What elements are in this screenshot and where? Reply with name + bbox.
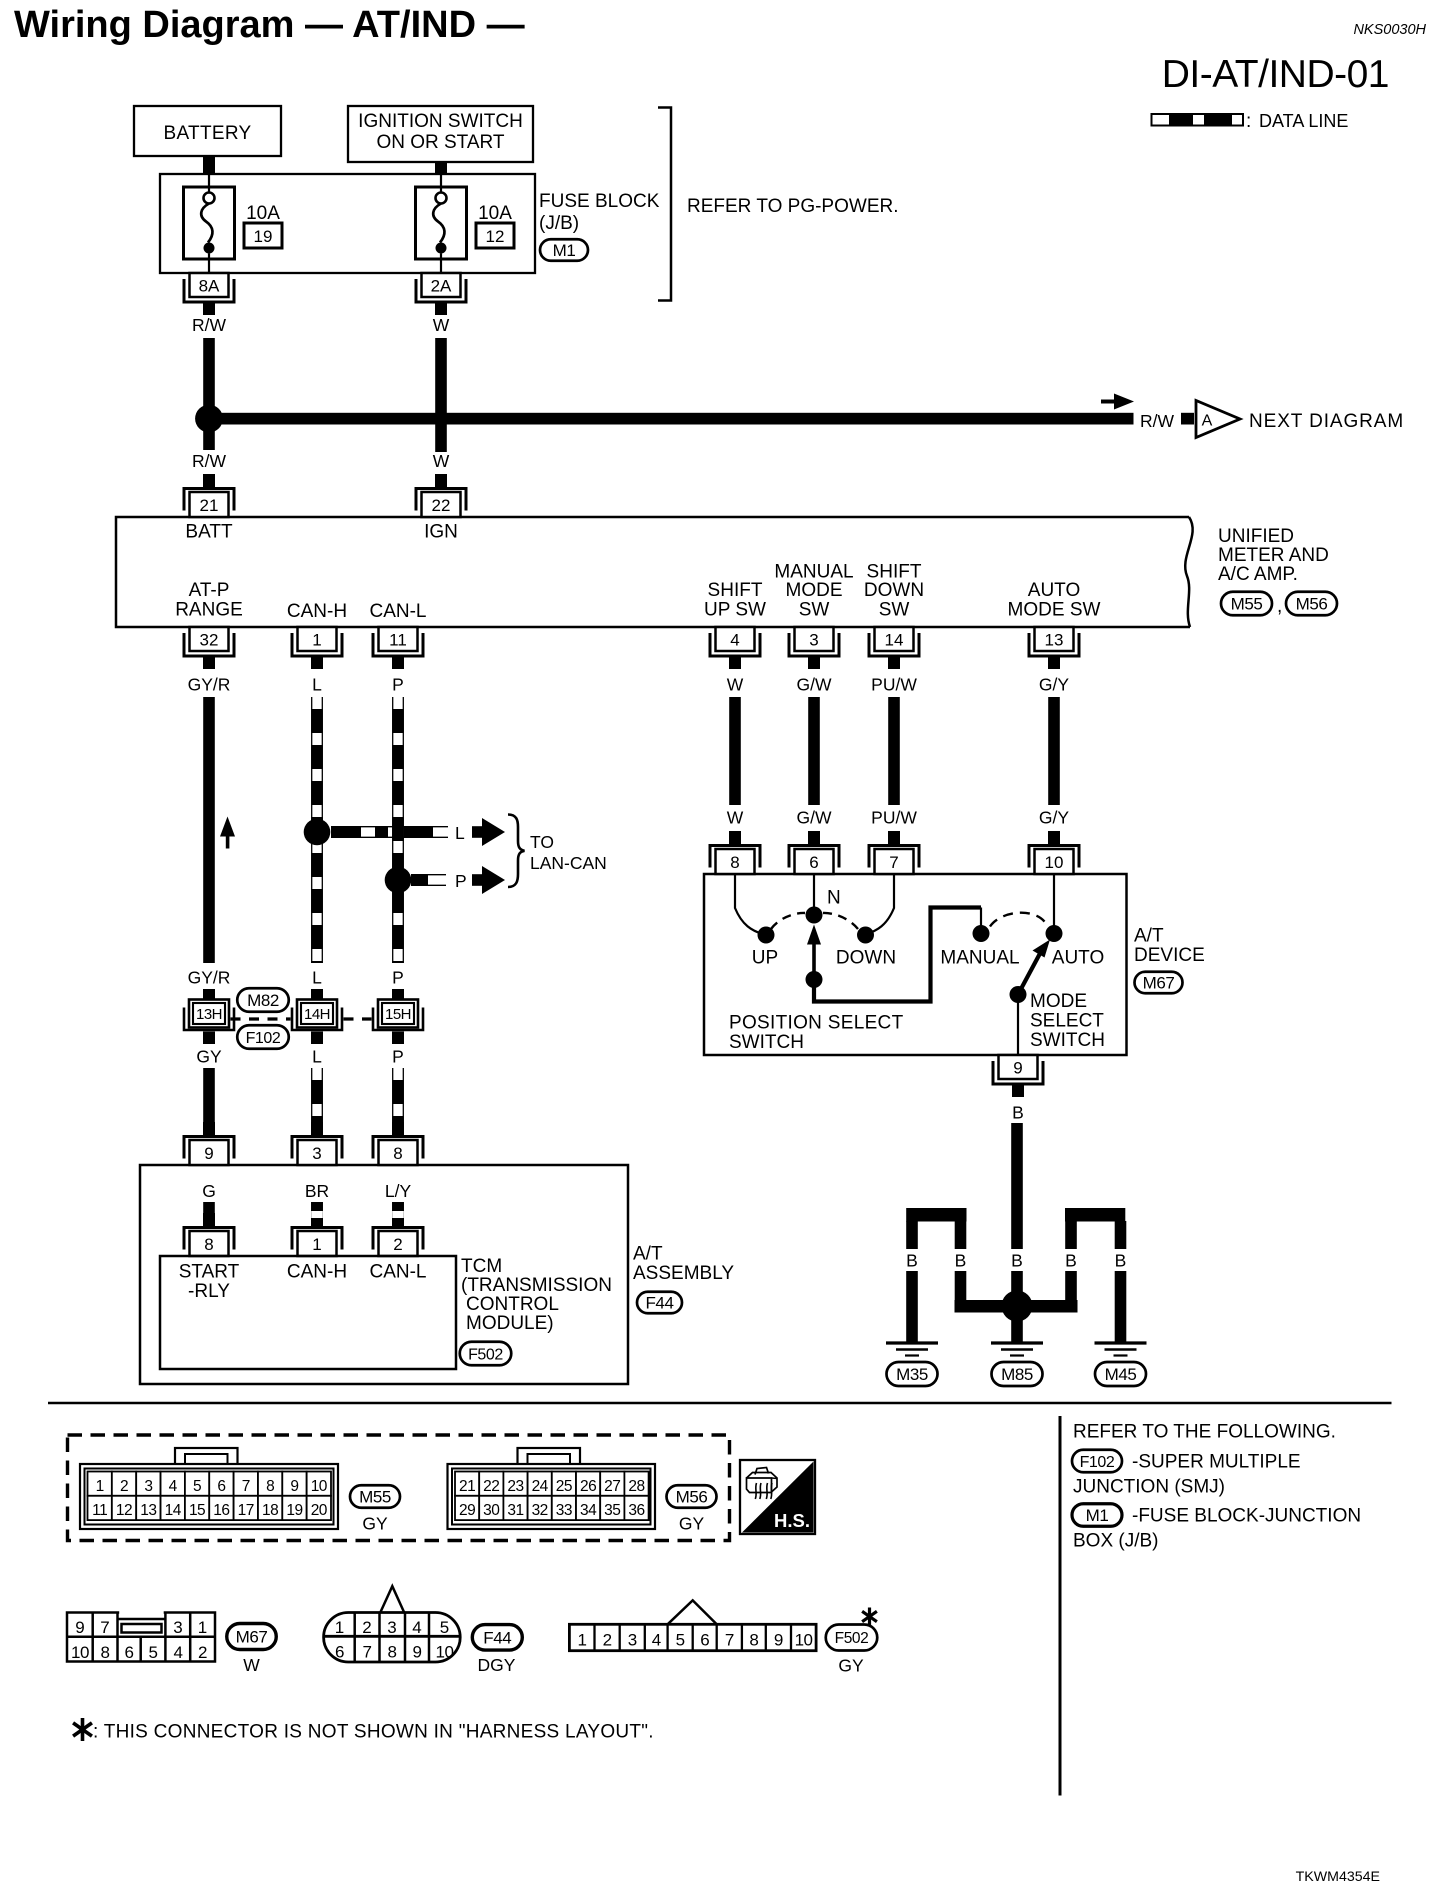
svg-text:M45: M45 [1105, 1365, 1137, 1384]
svg-text:B: B [1065, 1251, 1077, 1271]
svg-text:B: B [955, 1251, 967, 1271]
svg-text:MODE SW: MODE SW [1008, 600, 1101, 621]
svg-text:UP SW: UP SW [704, 600, 766, 621]
svg-text:-SUPER MULTIPLE: -SUPER MULTIPLE [1132, 1452, 1301, 1473]
svg-text:B: B [1115, 1251, 1127, 1271]
svg-text:30: 30 [483, 1502, 500, 1519]
svg-text:DGY: DGY [478, 1655, 516, 1675]
svg-text:9: 9 [774, 1630, 783, 1649]
svg-text:3: 3 [628, 1630, 637, 1649]
svg-text:10: 10 [436, 1643, 454, 1662]
svg-text:L/Y: L/Y [385, 1181, 412, 1201]
svg-text:8: 8 [388, 1643, 397, 1662]
svg-text:G/W: G/W [797, 808, 832, 828]
svg-text:P: P [392, 968, 404, 988]
svg-text:4: 4 [412, 1618, 421, 1637]
svg-text:ASSEMBLY: ASSEMBLY [633, 1263, 734, 1284]
svg-text:H.S.: H.S. [774, 1510, 810, 1531]
svg-text:RANGE: RANGE [175, 600, 243, 621]
svg-text:M1: M1 [1086, 1506, 1109, 1525]
svg-text:31: 31 [507, 1502, 523, 1519]
svg-text:Wiring Diagram — AT/IND —: Wiring Diagram — AT/IND — [14, 4, 525, 46]
svg-text:2: 2 [393, 1235, 402, 1254]
svg-text:6: 6 [125, 1643, 134, 1662]
svg-text:F502: F502 [468, 1346, 503, 1363]
svg-text:IGN: IGN [424, 522, 458, 543]
svg-text:F44: F44 [483, 1628, 511, 1647]
svg-text:M55: M55 [359, 1488, 391, 1507]
svg-text:JUNCTION (SMJ): JUNCTION (SMJ) [1073, 1477, 1225, 1498]
svg-text:3: 3 [387, 1618, 396, 1637]
svg-text:11: 11 [389, 631, 407, 650]
svg-text:TCM: TCM [461, 1256, 502, 1277]
svg-text:G/Y: G/Y [1039, 808, 1069, 828]
svg-text:29: 29 [459, 1502, 475, 1519]
svg-text:1: 1 [312, 631, 321, 650]
svg-text:BATT: BATT [185, 522, 233, 543]
svg-text:7: 7 [100, 1618, 109, 1637]
svg-text:M56: M56 [676, 1488, 708, 1507]
svg-text:M55: M55 [1231, 595, 1263, 614]
svg-text:FUSE BLOCK: FUSE BLOCK [539, 191, 660, 212]
svg-text:F102: F102 [246, 1030, 281, 1047]
svg-text:GY/R: GY/R [188, 968, 231, 988]
svg-text:(J/B): (J/B) [539, 213, 579, 234]
svg-text:POSITION SELECT: POSITION SELECT [729, 1013, 904, 1034]
svg-text:DATA LINE: DATA LINE [1259, 111, 1348, 131]
svg-text:SELECT: SELECT [1030, 1011, 1104, 1032]
svg-text:19: 19 [254, 227, 273, 246]
svg-text:2: 2 [198, 1643, 207, 1662]
svg-text:35: 35 [604, 1502, 620, 1519]
svg-text:9: 9 [413, 1643, 422, 1662]
svg-text:CAN-H: CAN-H [287, 1262, 347, 1283]
svg-text:B: B [906, 1251, 918, 1271]
svg-text:19: 19 [286, 1502, 302, 1519]
svg-text:R/W: R/W [192, 315, 227, 335]
svg-text:DOWN: DOWN [864, 580, 924, 601]
svg-text:8: 8 [266, 1478, 274, 1495]
svg-text:A/T: A/T [1134, 926, 1164, 947]
svg-text:PU/W: PU/W [871, 808, 917, 828]
svg-text:26: 26 [580, 1478, 596, 1495]
svg-text:GY/R: GY/R [188, 675, 231, 695]
svg-text:M67: M67 [1143, 974, 1175, 993]
svg-text:IGNITION SWITCH: IGNITION SWITCH [358, 111, 523, 132]
svg-text:3: 3 [312, 1144, 321, 1163]
svg-text:AUTO: AUTO [1028, 580, 1080, 601]
svg-text:10A: 10A [478, 203, 512, 224]
svg-text:7: 7 [889, 853, 898, 872]
svg-text:1: 1 [96, 1478, 104, 1495]
svg-text:27: 27 [604, 1478, 620, 1495]
svg-text:R/W: R/W [1140, 411, 1175, 431]
svg-text:START: START [179, 1262, 240, 1283]
svg-text:L: L [312, 968, 322, 988]
svg-text:3: 3 [809, 631, 818, 650]
svg-text:LAN-CAN: LAN-CAN [530, 853, 607, 873]
svg-text:7: 7 [725, 1630, 734, 1649]
svg-text:AUTO: AUTO [1052, 948, 1104, 969]
svg-text:REFER TO PG-POWER.: REFER TO PG-POWER. [687, 196, 899, 217]
svg-text:2: 2 [603, 1630, 612, 1649]
svg-text:7: 7 [363, 1643, 372, 1662]
svg-text:18: 18 [262, 1502, 278, 1519]
svg-text:B: B [1012, 1103, 1024, 1123]
svg-text:,: , [1277, 596, 1282, 617]
svg-text:17: 17 [238, 1502, 254, 1519]
svg-text:14: 14 [885, 631, 904, 650]
svg-text:SHIFT: SHIFT [708, 580, 763, 601]
svg-text:36: 36 [628, 1502, 644, 1519]
svg-text:6: 6 [217, 1478, 225, 1495]
svg-text:9: 9 [75, 1618, 84, 1637]
svg-text:8: 8 [730, 853, 739, 872]
svg-text:15: 15 [189, 1502, 205, 1519]
svg-text:GY: GY [679, 1514, 705, 1534]
svg-text:P: P [392, 675, 404, 695]
svg-text:2A: 2A [431, 277, 452, 296]
svg-text:4: 4 [730, 631, 739, 650]
svg-text:GY: GY [362, 1514, 388, 1534]
svg-text:TKWM4354E: TKWM4354E [1296, 1869, 1380, 1885]
svg-text:8A: 8A [199, 277, 220, 296]
svg-text:10: 10 [311, 1478, 328, 1495]
svg-text:ON OR START: ON OR START [376, 132, 504, 153]
svg-text:-FUSE BLOCK-JUNCTION: -FUSE BLOCK-JUNCTION [1132, 1506, 1361, 1527]
svg-text:L: L [455, 823, 465, 843]
svg-text:11: 11 [92, 1502, 107, 1519]
svg-text:TO: TO [530, 832, 554, 852]
svg-text:REFER TO THE FOLLOWING.: REFER TO THE FOLLOWING. [1073, 1422, 1336, 1443]
svg-text:BATTERY: BATTERY [164, 123, 252, 144]
svg-text:B: B [1011, 1251, 1023, 1271]
svg-text:F44: F44 [645, 1294, 673, 1313]
svg-text:5: 5 [440, 1618, 449, 1637]
svg-text:14: 14 [165, 1502, 182, 1519]
svg-text:10: 10 [1045, 853, 1064, 872]
svg-text:PU/W: PU/W [871, 675, 917, 695]
svg-text:(TRANSMISSION: (TRANSMISSION [461, 1275, 612, 1296]
svg-text:4: 4 [169, 1478, 178, 1495]
svg-text:15H: 15H [385, 1006, 411, 1023]
svg-text:M1: M1 [553, 241, 576, 260]
svg-text:1: 1 [335, 1618, 344, 1637]
svg-text:GY: GY [838, 1656, 864, 1676]
svg-text:2: 2 [120, 1478, 128, 1495]
svg-text:32: 32 [532, 1502, 548, 1519]
svg-text:33: 33 [556, 1502, 572, 1519]
svg-text:A/T: A/T [633, 1244, 663, 1265]
svg-text:9: 9 [204, 1144, 213, 1163]
svg-text:4: 4 [652, 1630, 661, 1649]
svg-text:: THIS CONNECTOR IS NOT SHOWN: : THIS CONNECTOR IS NOT SHOWN IN "HARNES… [93, 1722, 654, 1743]
svg-text:1: 1 [577, 1630, 586, 1649]
svg-text:10A: 10A [246, 203, 280, 224]
svg-text:14H: 14H [304, 1006, 330, 1023]
svg-text:10: 10 [795, 1630, 813, 1649]
svg-text:24: 24 [532, 1478, 549, 1495]
svg-text:L: L [312, 1047, 322, 1067]
svg-text:5: 5 [676, 1630, 685, 1649]
svg-text:DEVICE: DEVICE [1134, 945, 1205, 966]
svg-text:F102: F102 [1080, 1454, 1115, 1471]
svg-text:DOWN: DOWN [836, 948, 896, 969]
svg-text:G: G [202, 1181, 216, 1201]
svg-text:MODE: MODE [786, 580, 843, 601]
svg-text:4: 4 [174, 1643, 183, 1662]
svg-text:GY: GY [196, 1047, 222, 1067]
svg-text:13H: 13H [196, 1006, 222, 1023]
svg-text:DI-AT/IND-01: DI-AT/IND-01 [1162, 53, 1389, 96]
svg-text:12: 12 [116, 1502, 132, 1519]
svg-text:W: W [727, 808, 744, 828]
svg-text:32: 32 [200, 631, 219, 650]
svg-text:METER AND: METER AND [1218, 545, 1329, 566]
svg-text:6: 6 [700, 1630, 709, 1649]
svg-text:BR: BR [305, 1181, 329, 1201]
svg-text:BOX (J/B): BOX (J/B) [1073, 1531, 1159, 1552]
svg-text:21: 21 [459, 1478, 475, 1495]
svg-text:13: 13 [140, 1502, 156, 1519]
svg-text:NEXT DIAGRAM: NEXT DIAGRAM [1249, 411, 1404, 432]
svg-text:SWITCH: SWITCH [1030, 1030, 1105, 1051]
svg-text:12: 12 [486, 227, 505, 246]
svg-text:W: W [243, 1655, 260, 1675]
svg-text:8: 8 [749, 1630, 758, 1649]
svg-text:SW: SW [879, 600, 910, 621]
svg-text:7: 7 [242, 1478, 250, 1495]
svg-text:28: 28 [628, 1478, 644, 1495]
svg-text:N: N [827, 888, 841, 909]
svg-text:M67: M67 [236, 1628, 268, 1647]
svg-text:M82: M82 [247, 991, 279, 1010]
svg-text:SW: SW [799, 600, 830, 621]
svg-text:9: 9 [290, 1478, 298, 1495]
svg-text:8: 8 [204, 1235, 213, 1254]
svg-text:R/W: R/W [192, 451, 227, 471]
svg-text:A/C AMP.: A/C AMP. [1218, 564, 1298, 585]
svg-text:6: 6 [335, 1643, 344, 1662]
svg-text:20: 20 [311, 1502, 328, 1519]
svg-text:G/W: G/W [797, 675, 832, 695]
svg-text:6: 6 [809, 853, 818, 872]
svg-text:L: L [312, 675, 322, 695]
svg-text:W: W [433, 315, 450, 335]
svg-text:UNIFIED: UNIFIED [1218, 526, 1294, 547]
svg-text:W: W [727, 675, 744, 695]
svg-text:1: 1 [198, 1618, 207, 1637]
svg-text:F502: F502 [835, 1630, 869, 1647]
svg-text:22: 22 [483, 1478, 499, 1495]
svg-text:UP: UP [752, 948, 778, 969]
svg-text:CAN-L: CAN-L [369, 1262, 426, 1283]
svg-text:P: P [455, 871, 467, 891]
svg-text:NKS0030H: NKS0030H [1353, 22, 1426, 38]
svg-text:MODE: MODE [1030, 991, 1087, 1012]
svg-text:1: 1 [312, 1235, 321, 1254]
svg-text:10: 10 [71, 1643, 89, 1662]
svg-text:CONTROL: CONTROL [466, 1294, 559, 1315]
svg-text:23: 23 [507, 1478, 523, 1495]
svg-text:-RLY: -RLY [188, 1281, 230, 1302]
svg-text:CAN-H: CAN-H [287, 601, 347, 622]
svg-text:8: 8 [393, 1144, 402, 1163]
svg-text:SWITCH: SWITCH [729, 1032, 804, 1053]
svg-text:3: 3 [144, 1478, 152, 1495]
svg-text:22: 22 [432, 496, 451, 515]
svg-text:W: W [433, 451, 450, 471]
svg-text:M56: M56 [1296, 595, 1328, 614]
svg-text:A: A [1202, 413, 1213, 430]
svg-text:G/Y: G/Y [1039, 675, 1069, 695]
svg-text:M85: M85 [1001, 1365, 1033, 1384]
svg-text:13: 13 [1045, 631, 1064, 650]
svg-text:2: 2 [362, 1618, 371, 1637]
svg-text::: : [1246, 111, 1251, 132]
svg-text:21: 21 [200, 496, 219, 515]
svg-text:9: 9 [1013, 1059, 1022, 1078]
svg-text:3: 3 [173, 1618, 182, 1637]
svg-text:MODULE): MODULE) [466, 1313, 554, 1334]
svg-text:25: 25 [556, 1478, 572, 1495]
svg-text:M35: M35 [896, 1365, 928, 1384]
svg-text:16: 16 [213, 1502, 229, 1519]
svg-text:5: 5 [149, 1643, 158, 1662]
svg-text:CAN-L: CAN-L [369, 601, 426, 622]
svg-text:34: 34 [580, 1502, 597, 1519]
svg-text:AT-P: AT-P [189, 580, 230, 601]
svg-text:8: 8 [101, 1643, 110, 1662]
svg-text:P: P [392, 1047, 404, 1067]
svg-text:MANUAL: MANUAL [940, 948, 1019, 969]
svg-text:5: 5 [193, 1478, 201, 1495]
